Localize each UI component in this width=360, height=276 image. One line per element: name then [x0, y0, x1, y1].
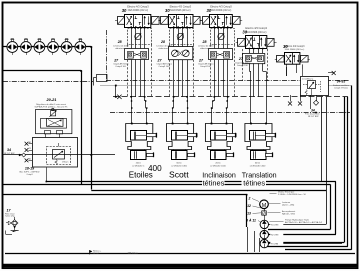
- svg-text:28: 28: [117, 40, 122, 44]
- svg-text:2: 2: [248, 197, 251, 201]
- svg-text:30: 30: [207, 8, 212, 13]
- svg-text:20mn: 20mn: [136, 162, 142, 164]
- svg-text:ALP2A-D-16 + ALP2A-D-9 + ALP1A: ALP2A-D-16 + ALP2A-D-9 + ALP1A-D-2: [285, 221, 323, 224]
- svg-text:Embase modulaire: Embase modulaire: [333, 84, 349, 87]
- svg-text:NF 64: NF 64: [93, 253, 100, 255]
- svg-text:N2 LHM: N2 LHM: [271, 235, 279, 237]
- svg-text:30: 30: [165, 8, 170, 13]
- svg-text:34: 34: [311, 109, 315, 113]
- svg-text:12: 12: [247, 204, 251, 208]
- svg-text:P1: P1: [29, 148, 31, 150]
- svg-text:réducteurs: réducteurs: [200, 47, 210, 50]
- svg-text:Cetop3 100: Cetop3 100: [237, 64, 249, 67]
- svg-text:A1: A1: [29, 141, 31, 144]
- svg-text:SUP'AIR-POS (24Vdc) + Sécurité: SUP'AIR-POS (24Vdc) + Sécurité P1: [35, 105, 69, 108]
- svg-text:NG6 DN06 (24V-cc): NG6 DN06 (24V-cc): [246, 32, 267, 34]
- svg-text:NA 132 - GR2: NA 132 - GR2: [282, 212, 296, 215]
- svg-text:3 À 11: 3 À 11: [246, 218, 256, 223]
- svg-text:±2 Ø50x30 C100: ±2 Ø50x30 C100: [210, 166, 227, 168]
- svg-text:réducteurs: réducteurs: [115, 47, 125, 50]
- svg-text:NF 1/4" BSP: NF 1/4" BSP: [308, 116, 319, 118]
- svg-text:Limiteur de débit: Limiteur de débit: [157, 45, 173, 48]
- svg-text:Cetop3 100: Cetop3 100: [115, 65, 127, 68]
- svg-text:20-21: 20-21: [46, 97, 57, 102]
- svg-text:30: 30: [122, 8, 127, 13]
- svg-text:Tamis 125µ: Tamis 125µ: [5, 216, 16, 218]
- svg-text:Electro 4/3 Cetop3: Electro 4/3 Cetop3: [245, 26, 267, 30]
- svg-text:34-35: 34-35: [337, 80, 346, 84]
- svg-text:±2 Ø50x30 C: ±2 Ø50x30 C: [132, 166, 145, 168]
- svg-text:14 (19bars): 14 (19bars): [302, 77, 313, 80]
- svg-text:(divers - 285): (divers - 285): [282, 203, 295, 206]
- svg-text:19bars: 19bars: [62, 160, 68, 163]
- svg-text:34: 34: [7, 148, 11, 152]
- svg-text:NG6 DN06 (24V-cc): NG6 DN06 (24V-cc): [285, 49, 305, 51]
- svg-text:Cetop3 100: Cetop3 100: [200, 65, 212, 68]
- svg-text:NG6 DN06 (24V-cc): NG6 DN06 (24V-cc): [170, 10, 191, 12]
- svg-text:5.5KWe - 1450/2800 t/mn - 50: 5.5KWe - 1450/2800 t/mn - 50: [278, 193, 307, 196]
- svg-text:Electro 4/3 Cetop3: Electro 4/3 Cetop3: [127, 5, 149, 9]
- svg-text:Limiteur de débit: Limiteur de débit: [113, 45, 129, 48]
- svg-text:Electro 4/3 Cetop3: Electro 4/3 Cetop3: [170, 5, 192, 9]
- svg-text:M: M: [262, 203, 267, 209]
- svg-text:Etoiles: Etoiles: [129, 170, 153, 179]
- svg-text:Cetop3 3 Postes: Cetop3 3 Postes: [334, 87, 348, 90]
- svg-text:30: 30: [283, 44, 288, 49]
- svg-text:30: 30: [242, 29, 247, 34]
- svg-text:60mn: 60mn: [255, 162, 261, 164]
- svg-text:Limiteur de débit: Limiteur de débit: [198, 45, 214, 48]
- svg-text:réducteurs: réducteurs: [159, 47, 169, 50]
- svg-text:±2 Ø50x30 C300: ±2 Ø50x30 C300: [250, 166, 267, 168]
- svg-text:100 Litres: 100 Litres: [128, 252, 139, 255]
- svg-text:tétines: tétines: [203, 178, 225, 187]
- svg-text:18-19: 18-19: [25, 167, 34, 171]
- svg-text:N1 LHM: N1 LHM: [271, 224, 279, 226]
- svg-text:tétines: tétines: [243, 178, 265, 187]
- svg-text:Electro 4/3 Cetop3: Electro 4/3 Cetop3: [210, 5, 232, 9]
- svg-text:13: 13: [247, 211, 251, 215]
- svg-text:B1: B1: [29, 159, 31, 161]
- svg-text:NG6 DN06 (24V-cc): NG6 DN06 (24V-cc): [211, 10, 232, 12]
- svg-text:60mn: 60mn: [176, 162, 182, 164]
- svg-text:P3 LHM: P3 LHM: [271, 244, 279, 246]
- svg-text:Cetop3 100: Cetop3 100: [159, 65, 171, 68]
- svg-text:20mn: 20mn: [215, 162, 221, 164]
- svg-text:NG6 DN06 (24V-cc): NG6 DN06 (24V-cc): [128, 10, 149, 12]
- svg-text:Scott: Scott: [169, 169, 189, 179]
- svg-text:28: 28: [202, 40, 207, 44]
- svg-text:28: 28: [160, 40, 165, 44]
- svg-text:±2 Ø50x30 C300: ±2 Ø50x30 C300: [171, 166, 188, 168]
- svg-text:Cetop3: Cetop3: [26, 173, 32, 176]
